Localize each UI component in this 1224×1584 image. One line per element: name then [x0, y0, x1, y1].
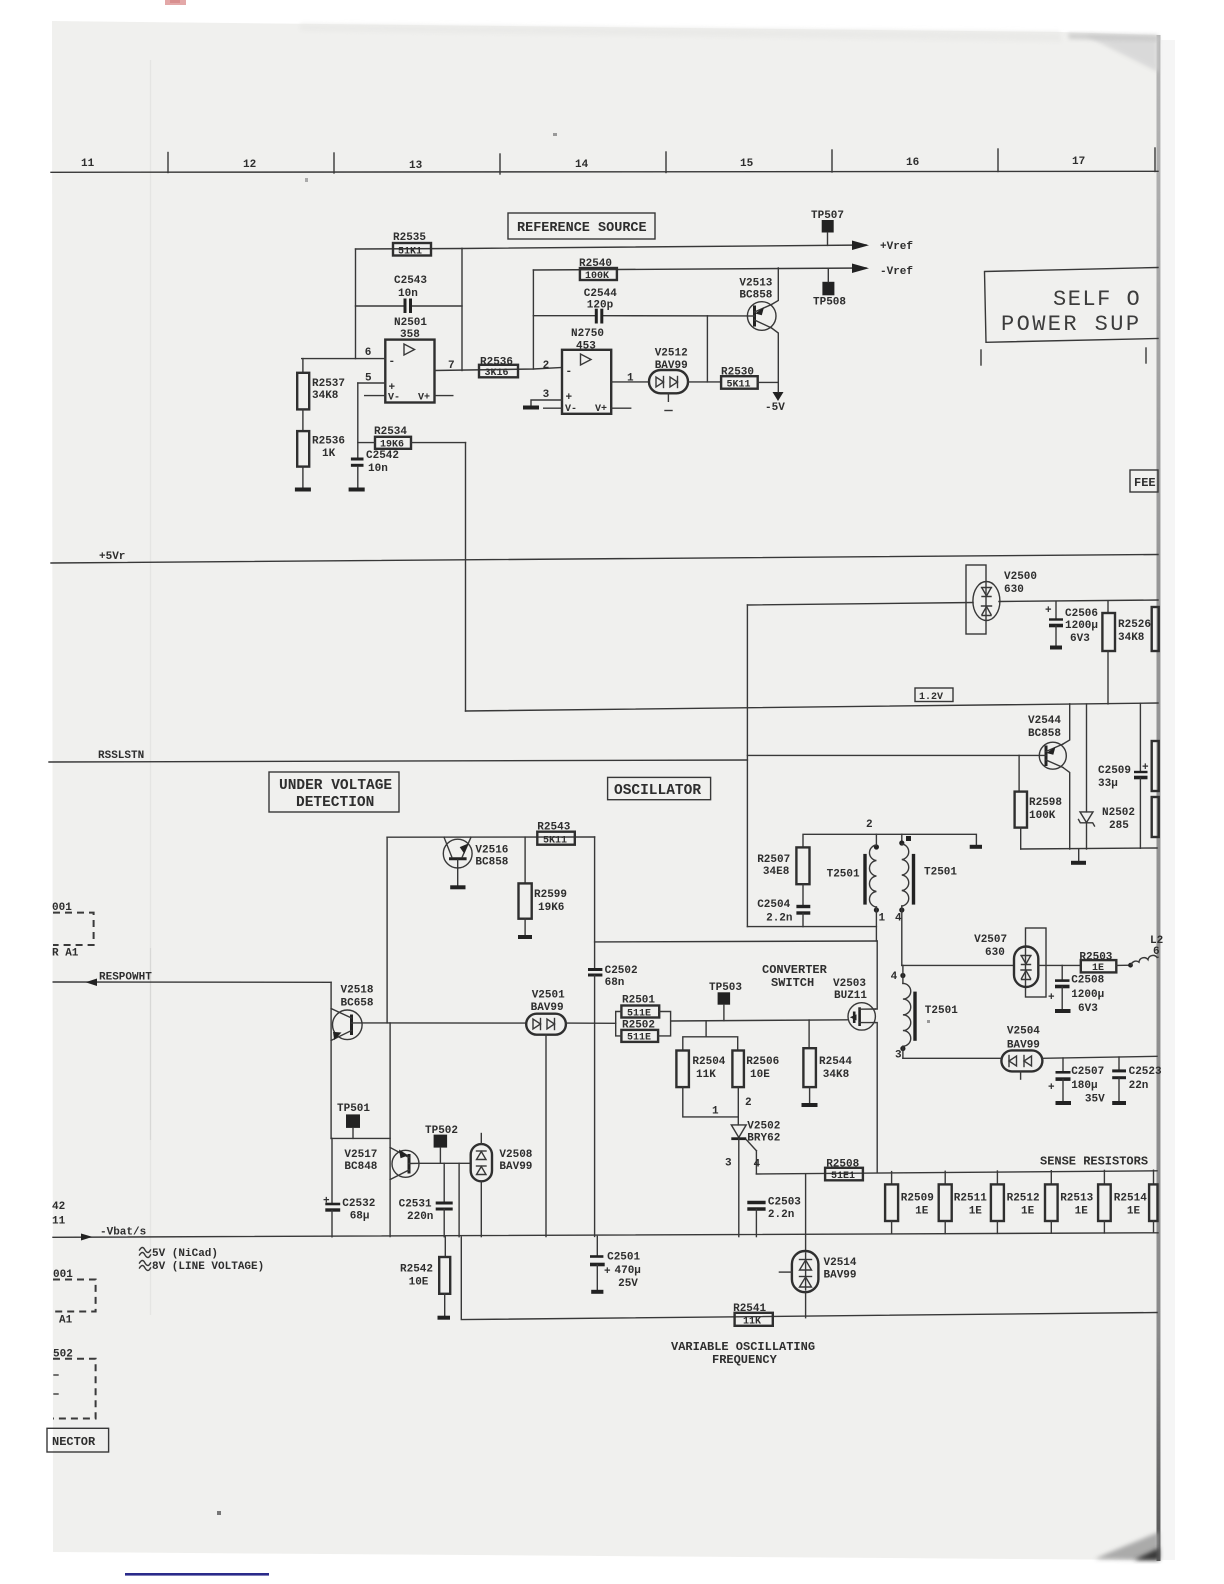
UNDER VOLTAGE DETECTION title box: [269, 772, 399, 812]
svg-text:-Vref: -Vref: [880, 266, 913, 278]
wire V2518 vertical: [330, 982, 332, 1138]
svg-text:R2526: R2526: [1118, 619, 1151, 631]
svg-text:630: 630: [985, 947, 1005, 959]
wire pin4 line 965: [902, 964, 1014, 966]
svg-text:BAV99: BAV99: [531, 1002, 564, 1014]
capacitor C2544: [533, 288, 747, 324]
op-amp U N2750 453: [562, 328, 611, 415]
svg-text:N2502: N2502: [1102, 807, 1135, 819]
wire bracket right and main gate wire: [658, 1012, 848, 1036]
wire bracket over R2504/R2506: [683, 1021, 738, 1051]
svg-text:C2508: C2508: [1071, 975, 1104, 987]
svg-text:1E: 1E: [915, 1206, 929, 1218]
svg-text:1K: 1K: [322, 448, 336, 460]
resistor R2507 34E8: [757, 847, 809, 884]
svg-text:100K: 100K: [585, 271, 609, 282]
resistor R2542 10E: [400, 1237, 450, 1316]
ground at pin3: [523, 406, 539, 410]
wire R2543 corner down: [594, 837, 596, 969]
svg-text:16: 16: [906, 157, 919, 169]
svg-text:TP503: TP503: [709, 982, 742, 994]
svg-text:C2502: C2502: [605, 965, 638, 977]
svg-text:34K8: 34K8: [1118, 632, 1145, 644]
wire op-amp output to pin2: [435, 368, 563, 371]
svg-text:11K: 11K: [696, 1069, 716, 1081]
svg-text:R2513: R2513: [1060, 1193, 1093, 1205]
capacitor C2504 2.2n: [757, 884, 810, 926]
node +Vref arrow: [852, 241, 913, 254]
resistor R2534: [358, 426, 466, 451]
wire pin3 rail 1058: [903, 1057, 1002, 1059]
blue line bottom margin: [125, 1573, 269, 1576]
svg-text:C2532: C2532: [342, 1198, 375, 1210]
resistor R2502 511E: [621, 1020, 658, 1044]
svg-text:T2501: T2501: [925, 1005, 958, 1017]
svg-text:R2503: R2503: [1079, 952, 1112, 964]
wire RESPOWHT with arrow: [53, 981, 331, 983]
svg-text:19K6: 19K6: [538, 902, 564, 914]
svg-text:A1: A1: [59, 1315, 73, 1327]
ruler tick 11/12: [167, 153, 169, 173]
diode V2508 BAV99: [471, 1134, 533, 1237]
svg-text:19K6: 19K6: [380, 440, 404, 451]
OSCILLATOR title box: [608, 777, 711, 799]
resistor R2509 1E: [885, 1172, 934, 1234]
thyristor V2502 BRY62: [731, 1121, 780, 1237]
svg-text:11: 11: [81, 158, 95, 170]
resistor R2536 3K16: [479, 357, 518, 380]
svg-text:V2507: V2507: [974, 934, 1007, 946]
svg-text:511E: 511E: [627, 1033, 651, 1044]
svg-text:C2506: C2506: [1065, 608, 1098, 620]
svg-text:14: 14: [575, 159, 589, 171]
svg-text:R2599: R2599: [534, 889, 567, 901]
wire bottom rail 927: [747, 926, 876, 928]
svg-text:V-: V-: [565, 404, 577, 415]
svg-text:R2542: R2542: [400, 1264, 433, 1276]
svg-text:R2598: R2598: [1029, 797, 1062, 809]
CONNECTOR box (cut): [47, 1428, 109, 1452]
test point TP502: [425, 1125, 458, 1163]
transistor Q V2517 BC848: [344, 1148, 419, 1180]
transformer T2501 winding 3: [900, 965, 958, 1058]
svg-text:1200µ: 1200µ: [1071, 989, 1104, 1001]
wire TP501 link: [331, 1137, 390, 1139]
wire R2503 to L2: [1116, 964, 1131, 966]
svg-text:17: 17: [1072, 156, 1085, 168]
svg-text:2: 2: [745, 1097, 752, 1109]
svg-text:630: 630: [1004, 584, 1024, 596]
svg-text:R2509: R2509: [901, 1193, 934, 1205]
wire source rail 1174: [756, 1171, 1157, 1174]
svg-text:C2507: C2507: [1071, 1066, 1104, 1078]
svg-text:CONVERTER: CONVERTER: [762, 963, 828, 977]
bottom right dark wedge: [1095, 1532, 1159, 1560]
svg-text:V2508: V2508: [499, 1149, 532, 1161]
wire V- stub N2750: [544, 407, 562, 409]
svg-text:BUZ11: BUZ11: [834, 990, 867, 1002]
page right edge shadow: [1157, 35, 1161, 1561]
top right corner smudge: [1085, 35, 1158, 72]
svg-text:34K8: 34K8: [312, 390, 339, 402]
capacitor C2532 68u: [323, 1138, 375, 1236]
resistor R2506 10E: [732, 1051, 779, 1088]
svg-text:100K: 100K: [1029, 810, 1056, 822]
AC source note 5V: [140, 1248, 219, 1261]
svg-text:BC858: BC858: [1028, 728, 1061, 740]
resistor R2540: [579, 258, 617, 282]
capacitor C2543: [356, 275, 463, 313]
transformer T2501 winding 2: [899, 834, 957, 965]
capacitor C2503 2.2n: [747, 1197, 801, 1237]
svg-text:R2537: R2537: [312, 378, 345, 390]
op-amp U N2501 358: [385, 317, 434, 404]
node 1.2V label box: [915, 688, 953, 703]
wire lower rail 849: [1021, 848, 1157, 849]
diode N2502 285 (zener): [1079, 704, 1136, 849]
wire long vertical x387/390: [387, 837, 390, 1236]
wire -Vbat/s rail: [53, 1233, 1158, 1238]
svg-text:11K: 11K: [743, 1317, 761, 1328]
svg-text:BAV99: BAV99: [824, 1270, 857, 1282]
wire V2544 base: [747, 754, 1046, 756]
svg-text:5V (NiCad): 5V (NiCad): [152, 1248, 218, 1260]
svg-text:C2543: C2543: [394, 275, 427, 287]
svg-text:+Vref: +Vref: [880, 241, 913, 253]
svg-text:V2503: V2503: [833, 978, 866, 990]
wire V+ stub N2750: [611, 407, 631, 409]
diode V2501 BAV99: [526, 990, 566, 1035]
svg-text:10n: 10n: [398, 288, 418, 300]
svg-text:10E: 10E: [409, 1277, 429, 1289]
wire vertical x747 main: [746, 605, 748, 927]
svg-text:6V3: 6V3: [1078, 1003, 1098, 1015]
capacitor C2542: [351, 450, 399, 488]
svg-text:BAV99: BAV99: [499, 1161, 532, 1173]
test point TP503: [709, 982, 742, 1021]
wire pin6 input: [302, 358, 386, 360]
svg-text:34E8: 34E8: [763, 866, 790, 878]
svg-text:V+: V+: [595, 404, 607, 415]
ruler tick 16/17: [997, 149, 999, 172]
svg-text:6V3: 6V3: [1070, 633, 1090, 645]
svg-text:POWER SUP: POWER SUP: [1001, 312, 1141, 337]
capacitor C2523 22n: [1112, 1057, 1162, 1103]
resistor R2536 1K: [297, 409, 345, 488]
svg-text:-: -: [566, 366, 573, 378]
svg-text:C2501: C2501: [607, 1252, 640, 1264]
stub below title box left: [980, 350, 982, 365]
transistor Q V2503 BUZ11 mosfet: [848, 1003, 875, 1030]
svg-text:R2536: R2536: [480, 357, 513, 369]
svg-text:5K11: 5K11: [727, 380, 751, 391]
svg-text:V2502: V2502: [747, 1121, 780, 1133]
resistor R2541 11K: [733, 1303, 773, 1328]
dashed connector box 3: [53, 1349, 96, 1419]
svg-text:25V: 25V: [618, 1278, 638, 1290]
svg-text:68µ: 68µ: [350, 1211, 370, 1223]
svg-text:REFERENCE SOURCE: REFERENCE SOURCE: [517, 221, 647, 236]
svg-text:511E: 511E: [627, 1009, 651, 1020]
wire top loop 837: [387, 836, 594, 838]
wire output pin1: [611, 381, 649, 383]
ruler line: [51, 171, 1158, 172]
transistor Q V2513 BC858: [739, 268, 778, 382]
svg-text:FREQUENCY: FREQUENCY: [712, 1353, 778, 1367]
resistor at page edge (cut): [1152, 607, 1159, 651]
svg-text:220n: 220n: [407, 1211, 433, 1223]
wire long vertical to 1.2V line: [465, 443, 467, 711]
svg-text:C2509: C2509: [1098, 765, 1131, 777]
svg-text:+: +: [1045, 605, 1052, 617]
svg-text:C2531: C2531: [399, 1199, 432, 1211]
svg-text:3: 3: [543, 389, 550, 401]
wire bracket left of R2501/R2502: [616, 1012, 622, 1036]
svg-text:R2507: R2507: [757, 854, 790, 866]
svg-text:V2516: V2516: [475, 845, 508, 857]
resistor R2513 1E: [1045, 1171, 1094, 1234]
svg-text:11: 11: [52, 1216, 66, 1228]
resistor R2599 19K6: [519, 837, 568, 935]
svg-text:+: +: [566, 392, 573, 404]
wire node A: R2535 feedback top wire: [356, 248, 463, 251]
ground under R2536: [295, 488, 311, 492]
svg-text:C2544: C2544: [584, 288, 617, 300]
wire vertical left feedback: [355, 249, 357, 359]
svg-text:10E: 10E: [750, 1069, 770, 1081]
transistor Q V2544 BC858: [1028, 704, 1070, 849]
svg-text:2.2n: 2.2n: [766, 913, 792, 925]
svg-text:C2504: C2504: [757, 899, 790, 911]
faint fold crease: [150, 60, 152, 1315]
resistor R2544 34K8: [803, 1020, 852, 1103]
svg-text:5K11: 5K11: [543, 836, 567, 847]
svg-text:V2501: V2501: [532, 990, 565, 1002]
svg-text:3K16: 3K16: [485, 368, 509, 379]
svg-text:+: +: [323, 1196, 330, 1208]
resistor at page edge (cut, 6th sense): [1149, 1170, 1157, 1233]
svg-text:1E: 1E: [1075, 1206, 1089, 1218]
wire drain up: [875, 941, 877, 1009]
suppressor V2507 630: [974, 928, 1046, 997]
wire R2530 to -5V node: [758, 381, 779, 383]
svg-text:R2536: R2536: [312, 436, 345, 448]
svg-text:V2500: V2500: [1004, 571, 1037, 583]
svg-text:2: 2: [866, 819, 873, 831]
test point TP501: [337, 1103, 370, 1138]
svg-text:34K8: 34K8: [823, 1069, 850, 1081]
wire vertical junction x462: [461, 249, 463, 371]
test point TP507: [811, 210, 844, 245]
capacitor C2502 68n: [588, 965, 638, 1236]
svg-text:T2501: T2501: [827, 869, 860, 881]
REFERENCE SOURCE title box: [508, 213, 655, 239]
power -5V: [765, 382, 785, 414]
ground under R2599: [518, 935, 532, 939]
capacitor C2508 1200u: [1048, 965, 1105, 1015]
svg-text:22n: 22n: [1129, 1080, 1149, 1092]
svg-text:V2513: V2513: [739, 278, 772, 290]
svg-text:+: +: [1048, 1082, 1055, 1094]
wire V- stub: [365, 395, 386, 397]
transistor Q V2518 BC658: [331, 985, 387, 1041]
svg-text:3: 3: [895, 1050, 902, 1062]
svg-text:4: 4: [891, 971, 898, 983]
wire R2504 corner to thyristor: [683, 1087, 739, 1117]
svg-text:V2514: V2514: [824, 1257, 857, 1269]
capacitor C2509 33u: [1098, 703, 1149, 848]
svg-text:51K1: 51K1: [398, 247, 422, 258]
svg-text:VARIABLE OSCILLATING: VARIABLE OSCILLATING: [671, 1340, 815, 1354]
wire top 834: [803, 834, 976, 847]
wire V2517 out: [419, 1162, 471, 1164]
wire source down: [875, 1023, 877, 1172]
svg-text:1: 1: [879, 913, 886, 925]
svg-text:51E1: 51E1: [831, 1171, 855, 1182]
svg-text:-: -: [389, 356, 396, 368]
SELF OSC POWER SUPPLY title box: [985, 268, 1159, 343]
resistor R2530: [721, 367, 758, 391]
wire 1.2V rail: [466, 703, 1159, 711]
resistor R2514 1E: [1098, 1170, 1147, 1233]
svg-text:1E: 1E: [1092, 963, 1104, 974]
resistors at page edge right (cut): [1152, 741, 1159, 791]
wire base line to V2501: [390, 1022, 526, 1024]
wire RSSLSTN: [49, 760, 747, 762]
svg-text:42: 42: [52, 1201, 65, 1213]
wire oscillator feed 941: [595, 940, 877, 943]
red speck top margin: [165, 0, 186, 5]
svg-text:+5Vr: +5Vr: [99, 551, 125, 563]
svg-text:470µ: 470µ: [615, 1265, 641, 1277]
svg-text:N2501: N2501: [394, 317, 427, 329]
wire pin3 to ground: [531, 400, 562, 406]
resistor R2543 5K11: [537, 822, 575, 847]
svg-text:6: 6: [365, 347, 372, 359]
capacitor C2531 220n: [399, 1163, 453, 1236]
inductor L2: [1131, 935, 1163, 965]
resistor R2503 1E: [1079, 952, 1116, 975]
svg-text:NECTOR: NECTOR: [52, 1435, 96, 1449]
suppressor V2500 630: [966, 565, 1037, 634]
svg-text:SWITCH: SWITCH: [771, 976, 814, 990]
svg-text:+: +: [1048, 992, 1055, 1004]
svg-text:SENSE RESISTORS: SENSE RESISTORS: [1040, 1155, 1148, 1169]
svg-text:1E: 1E: [969, 1206, 983, 1218]
svg-text:2: 2: [543, 360, 550, 372]
svg-text:1: 1: [712, 1106, 719, 1118]
ground under R2544: [802, 1103, 818, 1107]
svg-text:TP508: TP508: [813, 297, 846, 309]
svg-text:BRY62: BRY62: [747, 1133, 780, 1145]
termination bar pin2: [970, 845, 982, 849]
ruler tick 12/13: [333, 153, 335, 173]
svg-text:1200µ: 1200µ: [1065, 620, 1098, 632]
resistor R2598 100K: [1015, 755, 1063, 849]
svg-text:R2512: R2512: [1007, 1193, 1040, 1205]
FEEDBACK box (cut by page edge): [1130, 470, 1158, 492]
svg-text:C2542: C2542: [366, 450, 399, 462]
wire V2507 to R2503: [1038, 964, 1081, 966]
stub below title box right: [1145, 348, 1147, 363]
svg-text:R2514: R2514: [1114, 1193, 1147, 1205]
svg-text:BC858: BC858: [475, 857, 508, 869]
capacitor C2501 470u: [590, 1236, 641, 1291]
resistor R2537: [297, 359, 345, 410]
svg-text:285: 285: [1109, 820, 1129, 832]
AC source note 8V: [140, 1261, 265, 1274]
svg-text:+: +: [604, 1266, 611, 1278]
svg-text:FEE: FEE: [1134, 476, 1156, 490]
svg-text:120p: 120p: [587, 300, 614, 312]
svg-text:C2503: C2503: [768, 1197, 801, 1209]
svg-text:1.2V: 1.2V: [919, 692, 943, 703]
svg-text:R A1: R A1: [52, 948, 79, 960]
svg-text:T2501: T2501: [924, 867, 957, 879]
svg-text:180µ: 180µ: [1071, 1080, 1097, 1092]
resistor R2504 11K: [676, 1051, 725, 1088]
ground bar under R2542: [438, 1316, 451, 1320]
capacitor C2506 1200u: [1045, 602, 1098, 648]
svg-text:1E: 1E: [1021, 1206, 1035, 1218]
wire feedback vertical x707: [706, 316, 708, 382]
ground under V2516: [450, 885, 465, 889]
wire lower rail 1318: [461, 1237, 1157, 1320]
wire V2501 centre tap down: [545, 1035, 547, 1237]
wire V+ stub: [435, 395, 453, 397]
wire +5Vr rail: [51, 555, 1158, 564]
svg-text:2.2n: 2.2n: [768, 1209, 794, 1221]
svg-text:BC658: BC658: [341, 998, 374, 1010]
svg-text:V2517: V2517: [344, 1149, 377, 1161]
diode V2512 BAV99: [649, 348, 688, 411]
wire plain vertical x459: [458, 1163, 460, 1236]
resistor R2535: [393, 232, 431, 258]
capacitor C2507 180u: [1048, 1058, 1105, 1106]
svg-text:35V: 35V: [1085, 1094, 1105, 1106]
resistor R2511 1E: [939, 1171, 988, 1233]
svg-text:R2544: R2544: [819, 1056, 852, 1068]
svg-text:C2523: C2523: [1129, 1066, 1162, 1078]
svg-text:6: 6: [1153, 946, 1160, 958]
svg-text:DETECTION: DETECTION: [296, 795, 374, 811]
transformer T2501 winding 1: [827, 834, 879, 941]
resistor R2501 511E: [621, 995, 659, 1020]
svg-text:UNDER VOLTAGE: UNDER VOLTAGE: [279, 778, 392, 794]
svg-text:V-: V-: [388, 393, 400, 404]
dashed connector box 2: [53, 1269, 96, 1327]
wire 605 rail through V2500: [747, 603, 973, 606]
svg-text:33µ: 33µ: [1098, 778, 1118, 790]
svg-text:R2506: R2506: [746, 1056, 779, 1068]
svg-text:13: 13: [409, 160, 423, 172]
ruler tick 13/14: [499, 154, 501, 174]
svg-text:1: 1: [627, 373, 634, 385]
svg-text:3: 3: [725, 1158, 732, 1170]
dashed connector box 1: [52, 902, 94, 960]
resistor R2508 51E1: [825, 1159, 863, 1183]
wire -Vref line from R2540: [533, 268, 866, 270]
svg-text:V2544: V2544: [1028, 715, 1061, 727]
svg-text:4: 4: [895, 913, 902, 925]
svg-text:BC848: BC848: [344, 1161, 377, 1173]
svg-text:15: 15: [740, 158, 754, 170]
diode V2514 BAV99: [779, 1174, 857, 1318]
wire V2501 out to R2501 bracket: [566, 1022, 616, 1024]
svg-text:8V (LINE VOLTAGE): 8V (LINE VOLTAGE): [152, 1261, 264, 1273]
ground under C2542: [349, 488, 365, 492]
node -Vref arrow: [852, 264, 913, 279]
